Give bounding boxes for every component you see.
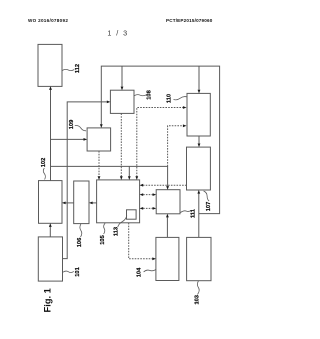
dashed 105 to 110 xyxy=(137,108,183,177)
svg-text:PCT/EP2015/079060: PCT/EP2015/079060 xyxy=(166,18,213,23)
svg-text:107: 107 xyxy=(206,202,212,212)
leader squiggle 105 xyxy=(104,223,106,234)
leader squiggle 107 xyxy=(204,191,210,201)
arrowhead into 102 bottom xyxy=(49,223,52,227)
dashed 105 and 111 upper xyxy=(143,194,153,196)
leader squiggle 113 xyxy=(118,216,127,227)
arrowhead into 110 top xyxy=(198,90,201,94)
arrowhead into 107 bottom xyxy=(197,190,200,194)
box 110 xyxy=(187,93,210,136)
wire 102 to 112 xyxy=(50,90,52,181)
box 112 xyxy=(38,44,62,86)
leader squiggle 109 xyxy=(75,126,86,131)
leader squiggle 106 xyxy=(80,224,82,237)
svg-text:101: 101 xyxy=(75,267,81,277)
arrowhead into 108 left xyxy=(107,101,111,104)
dashed 113 to 104 xyxy=(129,223,153,259)
arrowhead into 107 top xyxy=(198,144,201,148)
arrowhead dashed into 105 right lower pair xyxy=(140,207,144,210)
svg-text:110: 110 xyxy=(167,94,173,103)
svg-text:103: 103 xyxy=(195,295,201,305)
arrowhead dashed into 104 left xyxy=(152,257,156,260)
dashed 109 to 105 xyxy=(98,151,100,176)
wire 104 to 111 xyxy=(166,217,168,237)
wire branch down into 105 top xyxy=(128,166,130,176)
arrowhead into 111 top xyxy=(166,186,169,190)
svg-text:112: 112 xyxy=(75,64,81,73)
dashed 107 to 105 xyxy=(143,184,186,186)
wire 101 to 102 xyxy=(49,227,51,237)
box 101 xyxy=(38,237,62,281)
arrowhead dashed into 105 right upper pair xyxy=(140,193,144,196)
leader squiggle 112 xyxy=(62,69,74,70)
arrowhead into 111 bottom xyxy=(166,214,169,218)
arrowhead into 112 bottom xyxy=(49,86,52,90)
leader squiggle 102 xyxy=(43,168,45,180)
svg-text:Fig. 1: Fig. 1 xyxy=(43,288,53,312)
leader squiggle 104 xyxy=(144,270,156,273)
wire 101 right to 108 left xyxy=(63,102,107,259)
arrowhead dashed into 110 left lower xyxy=(183,124,187,127)
arrowhead into 109 top xyxy=(100,124,103,128)
box 104 xyxy=(156,237,179,280)
dashed 108 to 105 xyxy=(120,113,122,176)
box 102 xyxy=(39,181,63,224)
wire 110 to 107 xyxy=(198,136,200,144)
leader squiggle 103 xyxy=(197,281,199,295)
svg-text:WO 2016/078092: WO 2016/078092 xyxy=(28,18,68,23)
arrowhead dashed into 105 top from 108 xyxy=(120,176,123,180)
leader squiggle 111 xyxy=(180,210,191,212)
svg-text:106: 106 xyxy=(77,238,83,248)
arrowhead dashed into 105 top from 109 xyxy=(98,176,101,180)
arrowhead dashed into 110 left upper xyxy=(183,106,187,109)
svg-text:111: 111 xyxy=(191,209,197,218)
wire branch into 110 top xyxy=(198,66,200,90)
svg-text:105: 105 xyxy=(100,235,106,245)
arrowhead into 109 left xyxy=(84,138,88,141)
box 108 xyxy=(110,90,134,113)
leader squiggle 108 xyxy=(134,95,147,96)
box 107 xyxy=(187,147,211,190)
wire branch into 108 top xyxy=(121,66,123,87)
box 113 small box inside 105 xyxy=(127,210,137,219)
svg-text:113: 113 xyxy=(114,227,120,236)
box 103 xyxy=(187,237,211,280)
svg-text:104: 104 xyxy=(137,267,143,277)
dashed 105 and 111 lower xyxy=(143,207,153,209)
wire branch to 109 left xyxy=(51,138,84,140)
wire junction to right rail up and across top xyxy=(101,66,219,214)
box 105 xyxy=(97,180,140,223)
box 109 xyxy=(87,128,111,151)
box 111 xyxy=(156,190,180,214)
arrowhead dashed into 105 right from 107 xyxy=(140,184,144,187)
arrowhead dashed into 105 top from 110 xyxy=(135,176,138,180)
arrowhead into 102 right xyxy=(62,202,66,205)
wire 106 to 102 xyxy=(66,202,74,204)
leader squiggle 101 xyxy=(63,271,74,272)
box 106 xyxy=(74,181,89,224)
arrowhead into 108 top xyxy=(121,87,124,91)
svg-text:108: 108 xyxy=(147,90,153,100)
wire 103 to 107 xyxy=(198,194,200,238)
arrowhead dashed into 111 left upper pair xyxy=(153,193,157,196)
wire branch y166 to 111 top xyxy=(51,166,168,186)
leader squiggle 110 xyxy=(174,97,188,100)
svg-text:1 / 3: 1 / 3 xyxy=(107,29,128,38)
dashed junction up to 110 lower input xyxy=(168,126,183,167)
wire 105 to 106 xyxy=(93,202,97,204)
arrowhead into 105 top from branch xyxy=(128,176,131,180)
svg-text:109: 109 xyxy=(69,120,75,130)
arrowhead into 106 right xyxy=(89,202,93,205)
arrowhead dashed into 111 left lower pair xyxy=(153,207,157,210)
svg-text:102: 102 xyxy=(41,158,47,168)
